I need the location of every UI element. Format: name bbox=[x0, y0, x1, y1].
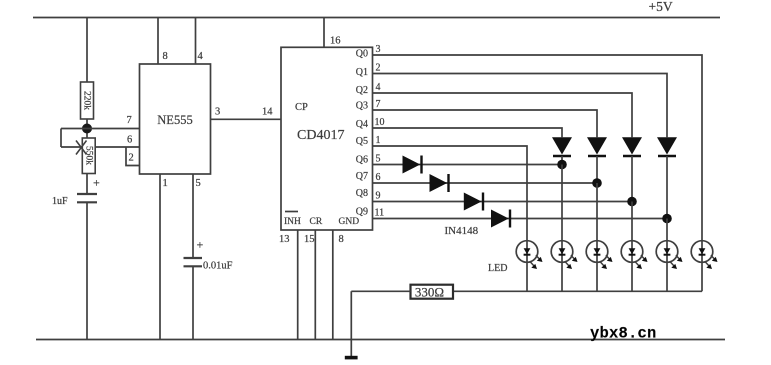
svg-text:1uF: 1uF bbox=[52, 196, 68, 207]
svg-text:10: 10 bbox=[375, 117, 385, 128]
wire LED3 column bbox=[596, 183, 598, 241]
pin 3 wire to pin 14 bbox=[211, 118, 282, 120]
capacitor C1 1uF bbox=[52, 176, 100, 208]
svg-text:1: 1 bbox=[376, 135, 381, 146]
svg-text:8: 8 bbox=[339, 234, 344, 245]
junction dot Q7/LED3 column bbox=[592, 178, 602, 188]
svg-text:15: 15 bbox=[304, 234, 315, 245]
diode D1 horizontal (Q6) bbox=[403, 156, 422, 174]
pin 4 wire bbox=[195, 18, 197, 65]
svg-text:CR: CR bbox=[310, 217, 323, 227]
pin 13 wire bbox=[297, 230, 299, 340]
wire LED4 column bbox=[631, 202, 633, 241]
svg-text:7: 7 bbox=[376, 99, 381, 110]
wire LED2 column bbox=[561, 165, 563, 241]
svg-text:8: 8 bbox=[163, 51, 168, 62]
junction dot Q6/LED2 column bbox=[557, 160, 567, 170]
wire bbox=[631, 262, 633, 291]
diode D4 horizontal (Q9) bbox=[491, 210, 510, 228]
svg-text:550k: 550k bbox=[83, 146, 93, 165]
svg-text:330Ω: 330Ω bbox=[415, 284, 444, 299]
diode D8 vertical (Q1 column) bbox=[657, 137, 677, 218]
svg-text:1: 1 bbox=[163, 178, 168, 189]
wire Q6 pin5 bbox=[373, 164, 563, 166]
junction dot Q9/LED5 column bbox=[662, 214, 672, 224]
svg-text:3: 3 bbox=[215, 107, 220, 118]
LED cathode bus wires bbox=[526, 262, 528, 291]
svg-text:+5V: +5V bbox=[649, 0, 673, 14]
wire Q8 pin9 bbox=[373, 201, 633, 203]
wire C2 to ground rail bbox=[192, 266, 194, 339]
op-amp U1 NE555 bbox=[140, 64, 211, 174]
diode D3 horizontal (Q8) bbox=[464, 193, 483, 211]
pin 8 wire (GND) bbox=[332, 230, 334, 340]
pin 15 wire bbox=[314, 230, 316, 340]
wire ground drop bbox=[350, 291, 352, 356]
svg-text:CP: CP bbox=[295, 102, 308, 113]
capacitor C2 0.01uF bbox=[184, 238, 233, 272]
svg-text:9: 9 bbox=[376, 191, 381, 202]
svg-text:GND: GND bbox=[339, 217, 360, 227]
wire bbox=[701, 262, 703, 291]
wire rail to R1 bbox=[86, 18, 88, 83]
wire Q7 pin6 bbox=[373, 182, 598, 184]
wire Q5 pin1 bbox=[373, 146, 528, 241]
wire LED5 column bbox=[666, 219, 668, 241]
wire R1 to node A bbox=[86, 119, 88, 138]
resistor R1 220k bbox=[81, 82, 94, 119]
svg-text:7: 7 bbox=[127, 115, 132, 126]
svg-text:6: 6 bbox=[376, 172, 381, 183]
svg-text:INH: INH bbox=[284, 217, 301, 227]
wire Q0 pin3 bbox=[373, 55, 703, 241]
LED4 bbox=[621, 241, 647, 269]
svg-text:Q3: Q3 bbox=[356, 101, 368, 112]
pin 1 wire bbox=[159, 174, 161, 340]
+5V rail bbox=[33, 17, 720, 19]
wire Q2 pin4 bbox=[373, 93, 633, 137]
svg-text:3: 3 bbox=[376, 44, 381, 55]
svg-text:0.01uF: 0.01uF bbox=[203, 261, 233, 272]
svg-text:220k: 220k bbox=[81, 91, 91, 110]
svg-text:2: 2 bbox=[129, 153, 134, 164]
wire Q9 pin11 bbox=[373, 218, 668, 220]
node A junction dot bbox=[82, 124, 92, 134]
svg-text:14: 14 bbox=[262, 107, 273, 118]
svg-text:Q1: Q1 bbox=[356, 67, 368, 78]
svg-text:NE555: NE555 bbox=[157, 113, 192, 127]
LED6 bbox=[691, 241, 717, 269]
svg-text:Q8: Q8 bbox=[356, 188, 368, 199]
pin 5 wire bbox=[192, 174, 194, 258]
svg-text:Q6: Q6 bbox=[356, 154, 368, 165]
wire pot to C1 bbox=[86, 174, 88, 195]
svg-text:Q0: Q0 bbox=[356, 49, 368, 60]
wire bbox=[666, 262, 668, 291]
wire loop left vertical bbox=[60, 129, 62, 148]
svg-text:16: 16 bbox=[330, 36, 341, 47]
junction dot Q8/LED4 column bbox=[627, 197, 637, 207]
svg-text:5: 5 bbox=[196, 178, 201, 189]
wire bbox=[561, 262, 563, 291]
resistor R2 330 ohm bbox=[411, 284, 454, 299]
pin 16 wire bbox=[323, 18, 325, 48]
diode D6 vertical (Q3 column) bbox=[587, 137, 607, 183]
wire Q4 pin10 bbox=[373, 128, 563, 137]
diode D2 horizontal (Q7) bbox=[430, 174, 449, 192]
svg-text:5: 5 bbox=[376, 154, 381, 165]
LED2 bbox=[551, 241, 577, 269]
wire bbox=[596, 262, 598, 291]
svg-text:4: 4 bbox=[198, 51, 204, 62]
svg-text:IN4148: IN4148 bbox=[445, 225, 479, 237]
wire Q1 pin2 bbox=[373, 74, 668, 138]
diode D7 vertical (Q2 column) bbox=[622, 137, 642, 201]
svg-text:Q9: Q9 bbox=[356, 206, 368, 217]
LED3 bbox=[586, 241, 612, 269]
svg-text:Q2: Q2 bbox=[356, 85, 368, 96]
svg-text:LED: LED bbox=[488, 263, 507, 274]
ground rail bbox=[36, 339, 725, 341]
svg-text:13: 13 bbox=[279, 234, 290, 245]
svg-text:11: 11 bbox=[375, 208, 385, 219]
LED1 bbox=[516, 241, 542, 269]
bus wire bbox=[453, 290, 702, 292]
svg-text:CD4017: CD4017 bbox=[297, 128, 344, 143]
wire C1 to ground rail bbox=[86, 202, 88, 339]
wire bus to ground drop bbox=[351, 290, 410, 292]
wire pin6 to NE555 bbox=[61, 146, 140, 148]
svg-text:Q7: Q7 bbox=[356, 171, 368, 182]
LED5 bbox=[656, 241, 682, 269]
svg-text:6: 6 bbox=[127, 135, 132, 146]
ground bbox=[345, 356, 358, 360]
wire Q3 pin7 bbox=[373, 110, 598, 137]
wire pin2 link bbox=[126, 147, 140, 166]
svg-text:2: 2 bbox=[376, 63, 381, 74]
svg-text:Q5: Q5 bbox=[356, 136, 368, 147]
pin 8 wire bbox=[157, 18, 159, 65]
svg-text:4: 4 bbox=[376, 82, 381, 93]
counter U2 CD4017 bbox=[281, 47, 373, 230]
svg-text:+: + bbox=[93, 176, 100, 190]
diode D5 vertical (Q4 column) bbox=[552, 137, 572, 164]
svg-text:Q4: Q4 bbox=[356, 119, 368, 130]
svg-text:+: + bbox=[197, 238, 204, 252]
potentiometer RP 550k bbox=[76, 138, 95, 174]
wire pin7 node A to NE555 bbox=[61, 128, 140, 130]
svg-text:ybx8.cn: ybx8.cn bbox=[590, 325, 657, 343]
